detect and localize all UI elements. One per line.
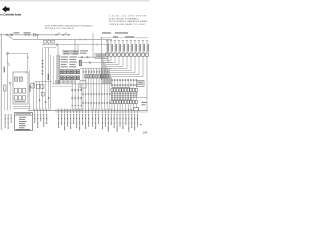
wire drop [107,39,109,62]
switch S1 [57,33,61,35]
connector boxes row [111,88,113,91]
wire label columns left group [34,109,36,114]
junction dot [68,34,69,35]
connector circles [25,34,27,36]
relay label box [95,53,108,58]
wire drop [92,33,94,57]
wire [27,53,29,70]
label text [80,50,88,51]
label box [63,50,70,54]
label box [72,50,79,54]
wire [78,56,100,58]
bottom wire bus [28,109,148,111]
legend rows [19,116,26,119]
wire color code legend box [15,113,33,131]
wires down [111,80,113,88]
wire drop [37,35,39,40]
ECU bottom hatch [55,80,57,83]
connector tick row [111,79,113,81]
fuse F2 [4,85,6,91]
connector circle [9,82,11,84]
connector pin boxes row [106,53,109,56]
inline connector boxes [85,75,87,78]
wire drop [57,45,59,56]
connector ticks [82,93,84,95]
switch S4 [25,70,27,74]
wire label columns right group [102,109,104,114]
wire [78,62,112,64]
relay box K1 [13,72,28,104]
relay coil [19,77,22,81]
vertical label [48,74,49,80]
wire [13,107,30,109]
inline connector on bus [134,108,139,111]
terminal boxes [14,89,17,94]
svg-text:ELECTRICAL SCHEMATIC: ELECTRICAL SCHEMATIC [109,17,139,20]
svg-text:[2/4]: [2/4] [143,133,148,135]
wire [29,70,31,110]
wire [4,91,6,110]
label [14,32,20,33]
switch S2 [64,33,68,35]
wire [100,37,148,39]
wire branch down [8,35,14,39]
connector arrow [27,57,29,59]
svg-text:2.5L/3L 2JZ-GTE MOTOR: 2.5L/3L 2JZ-GTE MOTOR [109,16,146,18]
wire [35,81,52,83]
switch S3 [8,62,10,66]
diode boxes [31,84,35,89]
wire bus 3 [42,44,110,46]
label [24,32,31,33]
wire drop [77,45,79,56]
relay coil [15,77,18,81]
fan wires staircase [103,56,108,84]
ECU pin label rows [61,56,69,57]
junction box [80,81,86,89]
connector boxes row [111,100,113,103]
pin label text row [111,84,113,85]
wire drop [100,37,102,80]
connector cluster [43,40,46,43]
wire [7,55,9,111]
svg-text:to Controller Index: to Controller Index [0,12,22,16]
wire drop [74,39,76,55]
left edge vertical wire [0,34,2,131]
wire label columns mid-right [92,109,94,114]
wire group [42,48,44,111]
wire label text rows [111,93,113,94]
wire main feed [0,34,70,36]
label text right [142,102,147,103]
wire group [33,82,35,111]
wire bus 2 [13,38,112,40]
wire [13,106,30,108]
svg-text:OPEN A 2ND HAND TO LIGHT: OPEN A 2ND HAND TO LIGHT [109,23,146,26]
wire [53,56,55,84]
wire ticks [79,38,81,40]
inline connector [33,34,35,36]
page top border [0,0,150,2]
connector circle [6,34,8,36]
wire [80,67,112,69]
wire bus under ECU [52,83,112,85]
vertical label [29,85,30,92]
wire label columns far left [5,113,6,116]
transistor symbol [6,52,8,54]
wire label columns mid group [58,109,60,114]
inline connector [41,92,44,96]
wire stub labels row [106,41,109,54]
vertical label [4,67,5,73]
back arrow icon [2,6,10,13]
wire switch feed [9,52,28,54]
terminal boxes row 2 [14,96,17,100]
wire [9,84,11,110]
wire [44,47,56,49]
A/C label text [102,32,111,33]
connector circles [81,56,83,58]
ECU pin boxes row 1 [60,70,63,74]
bus hatch ticks [55,109,57,112]
svg-text:BEFORE A COIL-OVER RELAY: BEFORE A COIL-OVER RELAY [45,27,75,30]
junction dot [140,124,141,125]
connector circle [89,62,91,64]
junction dots [39,100,40,101]
resistor R1 [79,60,81,66]
label box [137,80,144,86]
pin dots [42,60,43,61]
wires down from ECU [71,84,73,110]
ECU connector band [57,55,60,84]
ECU pin boxes row 2 [60,76,63,80]
svg-text:NOTE: JUMPER WIRE TO SINGLE MO: NOTE: JUMPER WIRE TO SINGLE MODULE PCM B… [45,24,94,27]
connector circle [56,44,58,46]
pin label row [83,71,85,73]
fuse F1 [9,34,11,36]
svg-text:WITH WIRING HARNESS AREA: WITH WIRING HARNESS AREA [109,20,148,23]
wire [138,97,148,99]
harness bundle verticals [82,68,84,110]
